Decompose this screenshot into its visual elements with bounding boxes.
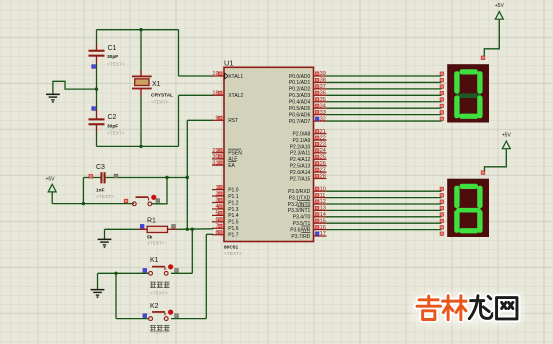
push button K2 [149,310,173,321]
pin 38 P0.1/AD1 [314,81,327,83]
node blue marker above junction [92,65,96,69]
wire XTAL1 vertical down to pin 19 [178,30,180,76]
node junction RST vertical on C3 net [186,176,189,179]
svg-text:XTAL2: XTAL2 [228,93,243,99]
svg-text:PSEN: PSEN [228,151,242,157]
pin 1 P1.0 [212,189,224,191]
watermark char long (black) [469,296,492,319]
wire C2 bottom to bottom rail [96,132,98,147]
svg-text:14: 14 [320,212,326,218]
svg-text:P0.5/AD5: P0.5/AD5 [289,106,311,112]
wire K2 left horizontal [116,318,149,320]
wire P3.1 to display DS2 segment [327,197,442,199]
value K2 reset-key (CJK strokes) [150,325,170,331]
svg-text:P1.6: P1.6 [228,226,239,232]
node gray marker C3 right [114,174,118,178]
pin 6 P1.5 [212,221,224,223]
svg-text:30pF: 30pF [107,124,118,130]
pin 15 P3.5/T1 [314,222,327,224]
wire R1 left to ground [105,228,138,230]
svg-text:P1.4: P1.4 [228,213,239,219]
pin 3 P1.2 [212,202,224,204]
svg-text:K2: K2 [150,303,159,310]
value K1 start-key (CJK strokes) [150,282,170,288]
svg-text:P1.3: P1.3 [228,207,239,213]
wire C3 left horizontal [83,177,100,179]
ground symbol (keys) [91,273,105,298]
wire K1 riser vertical [191,229,193,273]
svg-text:<TEXT>: <TEXT> [224,251,242,257]
crystal X1 [132,30,152,147]
svg-text:15: 15 [320,218,326,224]
svg-text:P1.5: P1.5 [228,220,239,226]
svg-text:C3: C3 [96,164,105,171]
svg-text:P0.0/AD0: P0.0/AD0 [289,74,311,80]
pin 14 P3.4/T0 [314,216,327,218]
pin 12 P3.2/INT0 [314,203,327,205]
wire R1 right to chip pin 7 (P1.6) [177,228,213,231]
wire P3.4 to display DS2 segment [327,216,442,218]
svg-text:28: 28 [320,174,326,180]
node blue marker above C2 [92,107,96,111]
wire XTAL2 horizontal to chip pin 18 [179,94,214,96]
wire button right riser to C3 net [152,178,167,204]
node junction crystal bottom [139,145,142,148]
svg-text:<TEXT>: <TEXT> [147,241,165,247]
wire P3.5 to display DS2 segment [327,222,442,224]
wire P0.1 to display DS1 segment [327,81,442,83]
svg-text:P2.5/A13: P2.5/A13 [290,164,311,170]
pin 7 P1.6 [212,227,224,229]
capacitor C2 [89,110,105,132]
wire left vertical C1 top [96,30,98,45]
svg-text:P2.6/A14: P2.6/A14 [290,170,311,176]
wire P1.7 horizontal to chip pin 8 [206,233,213,235]
pin XTAL1 clock arrow [225,73,228,79]
svg-text:37: 37 [320,84,326,90]
svg-text:12: 12 [320,199,326,205]
node red marker DS1 common [481,56,485,60]
pin 27 P2.6/A14 [314,171,327,173]
pin 4 P1.3 [212,208,224,210]
svg-text:18: 18 [212,91,218,97]
wire P0.4 to display DS1 segment [327,101,442,103]
svg-text:1: 1 [215,185,218,191]
watermark glow [412,293,524,325]
pin 16 P3.6/WR [314,229,327,231]
svg-text:R1: R1 [147,218,156,225]
wire bottom net XTAL2 rail [97,145,179,147]
svg-text:P0.7/AD7: P0.7/AD7 [289,119,311,125]
pin 23 P2.2/A10 [314,146,327,148]
svg-text:P2.3/A11: P2.3/A11 [290,151,310,157]
svg-text:P0.4/AD4: P0.4/AD4 [289,100,311,106]
wire XTAL1 horizontal to chip pin 19 [179,75,214,77]
svg-text:K1: K1 [150,257,159,264]
svg-text:1nF: 1nF [96,188,105,194]
svg-text:5k: 5k [147,235,153,241]
pin 5 P1.4 [212,214,224,216]
wire +5V rail to button [52,203,134,205]
pin 29 PSEN [212,152,224,154]
pin 19 XTAL1 [212,75,224,77]
pin 13 P3.3/INT1 [314,209,327,211]
ground symbol (R1) [98,229,112,248]
svg-text:3: 3 [215,198,218,204]
svg-text:P3.7/RD: P3.7/RD [291,234,310,240]
wire K1 right horizontal [171,272,192,274]
pin 37 P0.2/AD2 [314,88,327,90]
node gray marker K2 right [175,314,179,318]
push button (reset, unlabeled) [132,195,156,206]
svg-text:2: 2 [215,191,218,197]
pin 36 P0.3/AD3 [314,94,327,96]
pin 9 RST [212,119,224,121]
svg-text:C2: C2 [108,114,117,121]
ground symbol (oscillator) [46,94,60,104]
svg-text:11: 11 [320,193,326,199]
svg-text:P3.4/T0: P3.4/T0 [293,215,311,221]
node red marker C3 left [89,175,93,179]
capacitor C3 [100,172,105,183]
wire C1 bottom to junction [96,63,98,111]
power +5V symbol (reset circuit) [45,177,56,204]
wire P3.3 to display DS2 segment [327,209,442,211]
node junction K1 riser top [191,228,194,231]
svg-text:13: 13 [320,206,326,212]
svg-text:P0.2/AD2: P0.2/AD2 [289,87,311,93]
node junction C3 left drop [82,202,85,205]
node blue marker R1 left [140,225,144,229]
watermark char ji (orange) [417,296,440,319]
pin 8 P1.7 [212,234,224,236]
node blue marker K2 left [143,314,147,318]
svg-text:CRYSTAL: CRYSTAL [151,93,173,99]
pin 28 P2.7/A15 [314,178,327,180]
pin 17 P3.7/RD [314,235,327,237]
watermark char lin (orange) [443,296,467,320]
wire P0.6 to display DS1 segment [327,114,442,116]
svg-text:P2.4/A12: P2.4/A12 [290,157,311,163]
power +5V symbol (DS1) [484,3,504,56]
display DS2 pin squares [440,187,443,235]
svg-text:34: 34 [320,103,326,109]
svg-text:7: 7 [215,224,218,230]
svg-text:36: 36 [320,91,326,97]
svg-text:<TEXT>: <TEXT> [150,291,168,297]
svg-text:25: 25 [320,155,326,161]
wire P3.0 to display DS2 segment [327,190,442,192]
display DS1 pin squares [440,72,443,120]
svg-text:16: 16 [320,225,326,231]
svg-text:P1.7: P1.7 [228,233,239,239]
pin 31 EA [212,164,224,166]
svg-text:33: 33 [320,110,326,116]
pin 34 P0.5/AD5 [314,107,327,109]
wire P3.2 to display DS2 segment [327,203,442,205]
svg-text:<TEXT>: <TEXT> [107,131,125,137]
display DS2 7-segment (shows 8) [447,179,489,237]
capacitor C1 [89,44,105,63]
svg-text:+5V: +5V [495,3,505,9]
wire C3 right to RST vertical [106,177,188,179]
svg-text:P0.6/AD6: P0.6/AD6 [289,112,311,118]
svg-text:19: 19 [212,71,218,77]
wire ground branch step [53,81,97,94]
node red marker DS2 common [481,171,485,175]
pin 10 P3.0/RXD [314,190,327,192]
svg-text:XTAL1: XTAL1 [228,74,243,80]
svg-text:P2.1/A9: P2.1/A9 [293,138,311,144]
resistor R1 [138,226,178,232]
node red marker button left [124,199,128,203]
svg-text:23: 23 [320,142,326,148]
svg-text:<TEXT>: <TEXT> [151,100,169,106]
svg-text:24: 24 [320,148,326,154]
svg-text:30: 30 [212,154,218,160]
pin 30 ALE [212,158,224,160]
svg-text:39: 39 [320,71,326,77]
svg-text:+5V: +5V [45,177,55,183]
pin 25 P2.4/A12 [314,158,327,160]
svg-text:32: 32 [320,116,326,122]
power +5V symbol (DS2) [485,133,512,171]
push button K1 [149,264,173,275]
node junction C1/C2/ground [95,87,98,90]
wire P3.6 to display DS2 segment [327,229,442,231]
node gray marker K1 right [175,269,179,273]
svg-text:EA: EA [228,163,235,169]
svg-text:<TEXT>: <TEXT> [150,330,168,336]
svg-text:X1: X1 [152,81,161,88]
svg-text:5: 5 [215,211,218,217]
pin 39 P0.0/AD0 [314,75,327,77]
pin 24 P2.3/A11 [314,152,327,154]
wire C3 left vertical [82,178,84,204]
wire top net XTAL1: C1/crystal top rail [97,29,179,31]
node junction crystal top [139,28,142,31]
op-amp/IC U1 80C51 body [224,67,314,241]
svg-text:P3.3/INT1: P3.3/INT1 [288,208,311,214]
wire P0.2 to display DS1 segment [327,88,442,90]
node gray marker button right [156,199,160,203]
svg-text:8: 8 [215,230,218,236]
svg-text:<TEXT>: <TEXT> [107,62,125,68]
svg-text:31: 31 [212,160,218,166]
svg-text:U1: U1 [224,59,234,68]
svg-text:22: 22 [320,135,326,141]
watermark char wang (black) [497,298,517,319]
wire P0.5 to display DS1 segment [327,107,442,109]
svg-text:9: 9 [215,116,218,122]
svg-text:P1.2: P1.2 [228,200,239,206]
svg-text:P1.0: P1.0 [228,187,239,193]
wire P0.3 to display DS1 segment [327,94,442,96]
pin 21 P2.0/A8 [314,133,327,135]
svg-text:29: 29 [212,148,218,154]
svg-text:P0.3/AD3: P0.3/AD3 [289,93,311,99]
svg-text:35: 35 [320,97,326,103]
node junction RST vertical bottom [186,228,189,231]
svg-text:17: 17 [320,231,326,237]
svg-text:RST: RST [228,118,238,124]
wire P0.0 to display DS1 segment [327,75,442,77]
svg-text:P0.1/AD1: P0.1/AD1 [289,80,311,86]
svg-text:38: 38 [320,78,326,84]
node junction K2 drop [114,272,117,275]
svg-text:27: 27 [320,167,326,173]
node blue marker K1 left [143,269,147,273]
wire ground to K1 left [98,272,149,274]
node gray marker R1 right [172,225,176,229]
pin 2 P1.1 [212,195,224,197]
pin 32 P0.7/AD7 [314,120,327,122]
wire XTAL2 vertical [178,95,180,146]
svg-text:6: 6 [215,217,218,223]
svg-text:4: 4 [215,204,218,210]
svg-text:<TEXT>: <TEXT> [96,194,114,200]
svg-text:C1: C1 [108,45,117,52]
svg-text:P3.0/RXD: P3.0/RXD [288,189,311,195]
pin 26 P2.5/A13 [314,165,327,167]
wire K1-K2 left vertical [115,273,117,318]
wire K2 right to P1.7 riser [171,318,206,320]
svg-text:P1.1: P1.1 [228,194,239,200]
svg-text:P2.7/A15: P2.7/A15 [290,176,311,182]
svg-text:P2.0/A8: P2.0/A8 [293,132,311,138]
svg-text:10: 10 [320,186,326,192]
svg-text:P2.2/A10: P2.2/A10 [290,144,311,150]
svg-text:+5V: +5V [502,133,512,139]
wire RST net vertical [186,120,188,229]
pin 35 P0.4/AD4 [314,101,327,103]
pin 22 P2.1/A9 [314,139,327,141]
svg-text:30pF: 30pF [107,54,118,60]
wire P0.7 to display DS1 segment [327,120,442,122]
display DS1 7-segment (shows 0) [447,64,489,122]
svg-text:80C51: 80C51 [224,245,238,251]
pin 33 P0.6/AD6 [314,114,327,116]
svg-text:21: 21 [320,129,326,135]
wire P1.7 riser vertical [205,234,207,318]
svg-text:26: 26 [320,161,326,167]
pin 11 P3.1/TXD [314,197,327,199]
node junction button-right riser [165,176,168,179]
pin 18 XTAL2 [212,94,224,96]
wire RST horizontal to chip pin 9 [187,119,213,121]
